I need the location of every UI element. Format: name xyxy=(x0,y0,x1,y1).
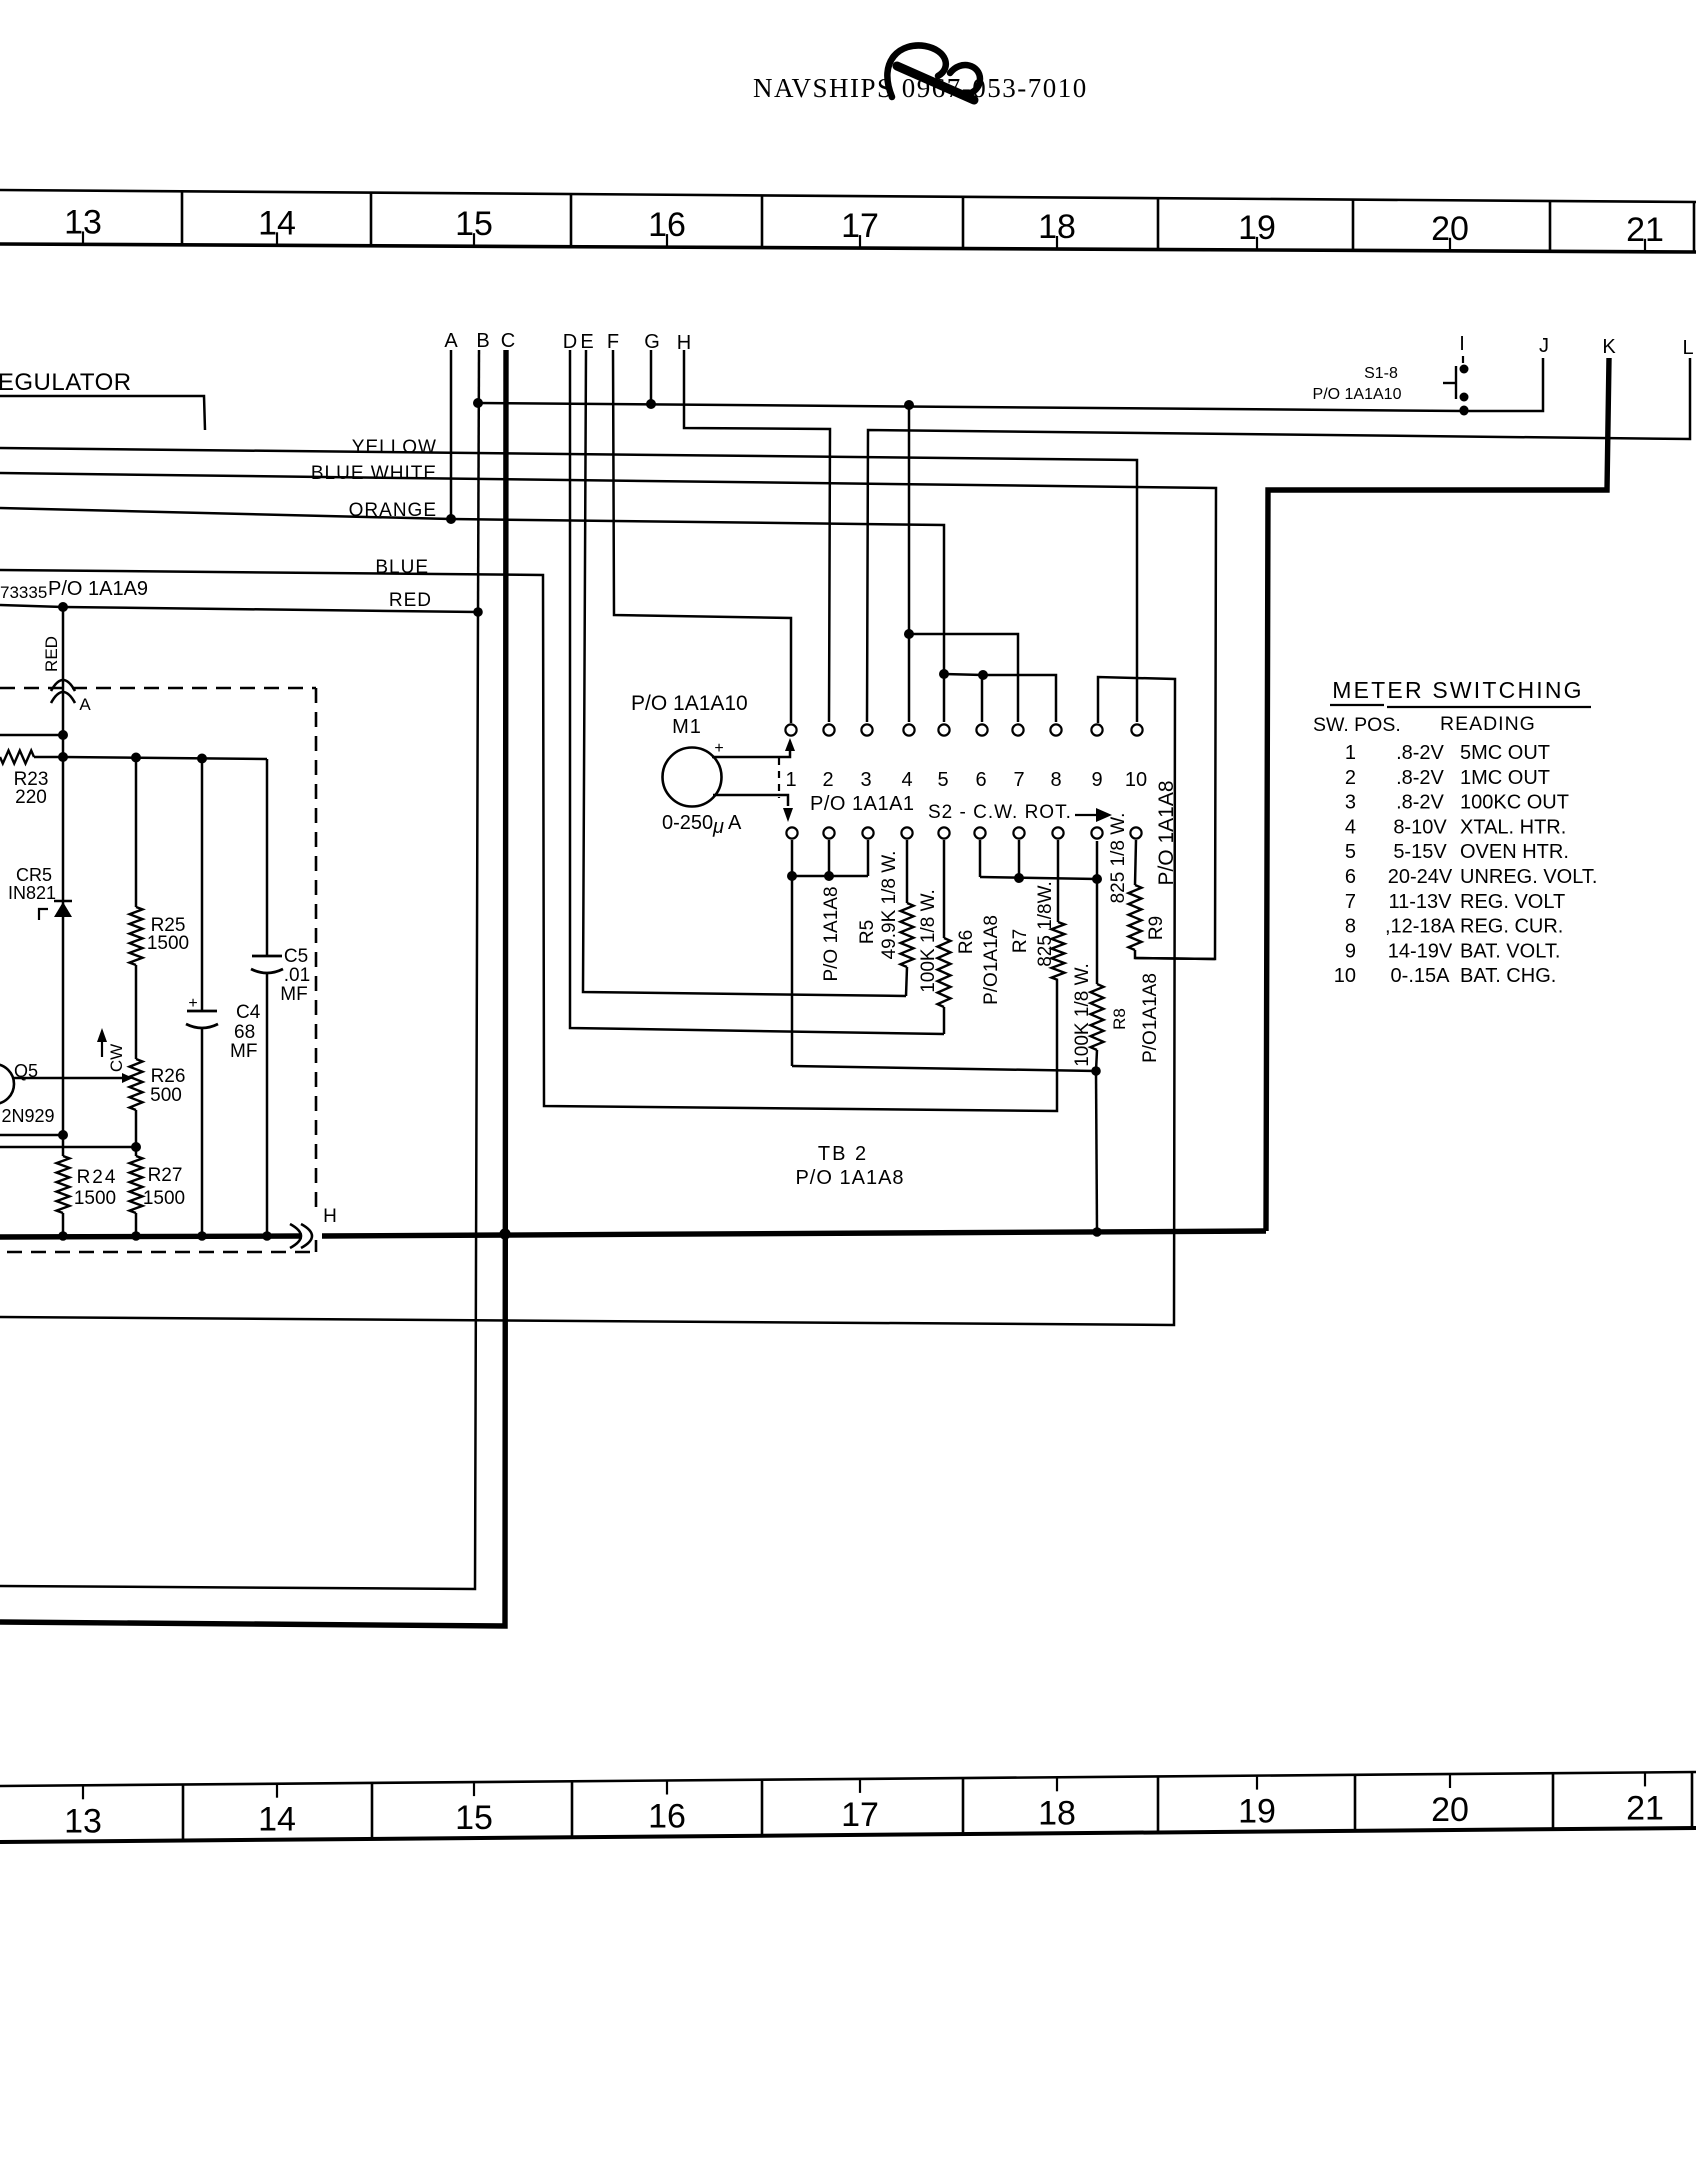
junction G xyxy=(646,399,656,409)
svg-text:1500: 1500 xyxy=(74,1188,116,1209)
resistor R5 xyxy=(901,903,914,967)
svg-text:+: + xyxy=(188,995,197,1012)
junction S1-8 xyxy=(1460,407,1469,416)
svg-text:220: 220 xyxy=(15,787,47,808)
svg-text:MF: MF xyxy=(280,984,307,1005)
wire R26 to R27 xyxy=(135,1110,138,1156)
svg-text:REG. VOLT: REG. VOLT xyxy=(1460,891,1565,913)
wire to S2 contact 6 xyxy=(981,675,984,722)
wire contact 6 lower xyxy=(979,840,982,877)
svg-text:100K 1/8 W.: 100K 1/8 W. xyxy=(918,889,939,993)
svg-text:P/O 1A1A1: P/O 1A1A1 xyxy=(810,793,915,815)
wire stub left xyxy=(0,1134,63,1137)
svg-text:BAT. VOLT.: BAT. VOLT. xyxy=(1460,940,1560,962)
module boundary P/O 1A1A9 (dashed box) xyxy=(0,687,316,690)
svg-text:R8: R8 xyxy=(1110,1008,1129,1030)
S2 upper contact 1 xyxy=(785,724,796,735)
svg-text:17: 17 xyxy=(841,1796,879,1834)
S2 upper contact 5 xyxy=(938,724,949,735)
wire stub to R27 xyxy=(0,1146,136,1149)
svg-text:.01: .01 xyxy=(284,965,310,986)
svg-text:μ: μ xyxy=(712,816,724,838)
svg-text:IN821: IN821 xyxy=(8,883,56,903)
svg-text:RED: RED xyxy=(42,636,61,672)
wire H to S2 contact 2 xyxy=(684,350,830,722)
wire G stub xyxy=(650,350,653,404)
svg-text:4: 4 xyxy=(1345,816,1356,838)
wire S2 contact 9 to left edge xyxy=(0,677,1175,1325)
svg-text:RED: RED xyxy=(389,590,432,611)
svg-text:P/O 1A1A8: P/O 1A1A8 xyxy=(821,886,842,981)
wire F to S2 contact 1 xyxy=(613,350,791,723)
svg-text:1500: 1500 xyxy=(147,933,189,954)
svg-text:2: 2 xyxy=(822,769,833,791)
svg-text:BLUE: BLUE xyxy=(375,557,429,578)
S2 lower contact 8 xyxy=(1052,827,1063,838)
junction to S2 deck xyxy=(904,400,914,410)
svg-text:A: A xyxy=(444,330,458,352)
resistor R8 xyxy=(1091,984,1104,1050)
svg-text:P/O 1A1A8: P/O 1A1A8 xyxy=(795,1167,904,1189)
S2 lower contact 3 xyxy=(862,827,873,838)
S2 lower contact 2 xyxy=(823,827,834,838)
wire CR5 to R24 xyxy=(62,917,65,1156)
S2 upper contact 8 xyxy=(1050,724,1061,735)
svg-text:10: 10 xyxy=(1125,769,1147,791)
S2 upper contact 7 xyxy=(1012,724,1023,735)
svg-text:D: D xyxy=(563,331,577,353)
S2 lower contact 6 xyxy=(974,827,985,838)
svg-text:XTAL. HTR.: XTAL. HTR. xyxy=(1460,816,1566,838)
resistor R23 xyxy=(0,751,34,764)
svg-text:K: K xyxy=(1602,336,1616,358)
svg-text:13: 13 xyxy=(64,1802,102,1840)
svg-text:R5: R5 xyxy=(857,920,878,944)
svg-text:19: 19 xyxy=(1238,1793,1276,1831)
svg-text:B: B xyxy=(476,330,489,352)
svg-text:R6: R6 xyxy=(956,930,977,954)
svg-text:CW: CW xyxy=(107,1044,126,1072)
wire contact 2 lower xyxy=(828,840,831,876)
junction B xyxy=(473,398,483,408)
svg-text:F: F xyxy=(607,331,619,353)
capacitor C4 xyxy=(201,758,204,1011)
svg-text:16: 16 xyxy=(648,1798,686,1836)
wire meter + to wiper xyxy=(712,749,790,757)
svg-text:P/O 1A1A8: P/O 1A1A8 xyxy=(1155,780,1178,885)
svg-text:10: 10 xyxy=(1334,965,1356,987)
svg-text:YELLOW: YELLOW xyxy=(352,437,437,458)
wire contact 3 lower xyxy=(867,840,870,876)
svg-text:1500: 1500 xyxy=(143,1188,185,1209)
svg-text:READING: READING xyxy=(1440,713,1536,735)
svg-text:5: 5 xyxy=(1345,841,1356,863)
svg-text:15: 15 xyxy=(455,1799,493,1837)
svg-text:P/O 1A1A10: P/O 1A1A10 xyxy=(631,692,748,715)
svg-text:REGULATOR: REGULATOR xyxy=(0,369,132,396)
resistor R9 xyxy=(1129,885,1142,950)
wire RED xyxy=(0,605,478,612)
bottom ruler strip xyxy=(0,1772,1696,1786)
svg-text:1MC OUT: 1MC OUT xyxy=(1460,767,1550,789)
svg-text:3: 3 xyxy=(860,769,871,791)
wire contacts 1,2,3 bus xyxy=(791,840,794,1066)
svg-text:5MC OUT: 5MC OUT xyxy=(1460,742,1550,764)
svg-text:14: 14 xyxy=(258,1801,296,1839)
wire R25 to R26 xyxy=(135,965,138,1059)
svg-text:ORANGE: ORANGE xyxy=(349,500,437,521)
wire to S2 contact 4 xyxy=(908,405,911,722)
svg-text:2N929: 2N929 xyxy=(1,1106,54,1126)
wire YELLOW to S2 contact 10 xyxy=(0,448,1137,722)
wire B-G-J xyxy=(478,358,1543,411)
wire ORANGE to S2 contact 5 xyxy=(0,508,944,722)
svg-text:20-24V: 20-24V xyxy=(1388,866,1453,888)
wire bus to R8 bottom xyxy=(792,1066,1096,1071)
wire K (heavy) to ground bus xyxy=(1266,358,1609,1231)
svg-text:500: 500 xyxy=(150,1085,182,1106)
wire top rail xyxy=(63,757,267,759)
wire BLUE WHITE to R9 xyxy=(0,473,1216,959)
svg-text:TB 2: TB 2 xyxy=(818,1143,868,1165)
svg-text:825 1/8W.: 825 1/8W. xyxy=(1035,881,1056,967)
svg-text:2: 2 xyxy=(1345,767,1356,789)
wire B lower to left edge xyxy=(0,612,478,1589)
junction contact 4/7 xyxy=(904,629,914,639)
svg-text:SW. POS.: SW. POS. xyxy=(1313,714,1401,736)
svg-text:METER SWITCHING: METER SWITCHING xyxy=(1332,677,1584,703)
svg-text:0-250: 0-250 xyxy=(662,812,713,834)
svg-text:7: 7 xyxy=(1013,769,1024,791)
svg-text:3: 3 xyxy=(1345,792,1356,814)
svg-text:H: H xyxy=(323,1206,337,1227)
paperclip mark xyxy=(887,45,945,97)
wire A stub xyxy=(450,350,453,519)
wire to R25 xyxy=(135,757,138,907)
potentiometer R26 xyxy=(130,1059,143,1110)
svg-text:R26: R26 xyxy=(151,1066,186,1087)
svg-text:68: 68 xyxy=(234,1022,255,1043)
svg-text:9: 9 xyxy=(1091,769,1102,791)
svg-text:M1: M1 xyxy=(672,716,702,738)
dashed gang link xyxy=(778,758,780,798)
wire meter - to wiper xyxy=(713,795,788,806)
leader line REGULATOR xyxy=(0,396,205,430)
svg-text:6: 6 xyxy=(1345,866,1356,888)
svg-text:14-19V: 14-19V xyxy=(1388,940,1453,962)
svg-text:R7: R7 xyxy=(1010,929,1031,953)
wire E to R5 xyxy=(583,350,906,996)
wire stub to A line xyxy=(0,734,63,737)
svg-text:0-.15A: 0-.15A xyxy=(1391,965,1451,987)
wire C (heavy) to left edge xyxy=(0,350,506,1626)
svg-text:E: E xyxy=(580,331,593,353)
svg-text:,12-18A: ,12-18A xyxy=(1385,916,1456,938)
svg-text:I: I xyxy=(1459,333,1465,355)
svg-text:P/O 1A1A10: P/O 1A1A10 xyxy=(1313,386,1402,403)
svg-text:7: 7 xyxy=(1345,891,1356,913)
svg-text:C5: C5 xyxy=(284,946,308,967)
svg-text:R24: R24 xyxy=(77,1167,118,1188)
CW arrow (R26 rotation) xyxy=(101,1040,103,1057)
svg-text:P/O 1A1A9: P/O 1A1A9 xyxy=(48,578,148,600)
svg-text:20: 20 xyxy=(1431,1791,1469,1829)
svg-text:.8-2V: .8-2V xyxy=(1396,742,1444,764)
heavy bus wire (to K) xyxy=(0,1236,302,1237)
junction R23 line xyxy=(58,752,68,762)
svg-text:100K 1/8 W.: 100K 1/8 W. xyxy=(1072,963,1093,1067)
svg-text:OVEN HTR.: OVEN HTR. xyxy=(1460,841,1569,863)
svg-text:REG. CUR.: REG. CUR. xyxy=(1460,916,1563,938)
wire contact 4 lower to R5 xyxy=(906,840,909,903)
S2 upper contact 9 xyxy=(1091,724,1102,735)
svg-text:100KC OUT: 100KC OUT xyxy=(1460,792,1569,814)
S2 lower contact 9 xyxy=(1091,827,1102,838)
svg-text:S1-8: S1-8 xyxy=(1364,365,1398,382)
svg-text:11-13V: 11-13V xyxy=(1388,891,1452,913)
svg-text:.8-2V: .8-2V xyxy=(1396,767,1444,789)
wire contact 7 lower xyxy=(1018,840,1021,878)
junction A-ORANGE xyxy=(446,514,456,524)
S2 lower contact 10 xyxy=(1130,827,1141,838)
junction C-ground bus xyxy=(499,1228,510,1239)
svg-text:5-15V: 5-15V xyxy=(1393,841,1447,863)
svg-text:BLUE WHITE: BLUE WHITE xyxy=(311,463,437,484)
resistor R27 xyxy=(130,1156,143,1213)
svg-text:8: 8 xyxy=(1050,769,1061,791)
S2 lower contact 1 xyxy=(786,827,797,838)
wire BLUE to R7 xyxy=(0,570,1057,1111)
svg-text:P/O1A1A8: P/O1A1A8 xyxy=(1140,973,1161,1063)
svg-text:1: 1 xyxy=(785,769,796,791)
svg-text:5: 5 xyxy=(937,769,948,791)
wire contact 9 lower xyxy=(1096,841,1099,879)
S2 upper contact 4 xyxy=(903,724,914,735)
wire L to S2 contact 3 xyxy=(867,358,1690,722)
wire contact 8 lower to R7 xyxy=(1057,840,1060,922)
svg-text:+: + xyxy=(714,740,723,757)
wire contact 5 lower to R6 xyxy=(943,840,946,938)
svg-text:1: 1 xyxy=(1345,742,1356,764)
S2 upper contact 3 xyxy=(861,724,872,735)
svg-text:BAT. CHG.: BAT. CHG. xyxy=(1460,965,1556,987)
svg-text:C4: C4 xyxy=(236,1002,261,1023)
svg-text:R9: R9 xyxy=(1146,916,1167,940)
svg-text:A: A xyxy=(79,695,91,714)
svg-text:.8-2V: .8-2V xyxy=(1396,792,1444,814)
S2 lower contact 7 xyxy=(1013,827,1024,838)
top ruler strip xyxy=(0,190,1696,202)
wire to S2 contact 7 xyxy=(909,634,1018,722)
svg-text:8-10V: 8-10V xyxy=(1393,816,1447,838)
svg-text:A: A xyxy=(728,812,742,834)
wire red lead xyxy=(62,607,65,900)
resistor R24 xyxy=(57,1156,70,1213)
svg-text:CR5: CR5 xyxy=(16,865,52,885)
wire to R8 xyxy=(1096,879,1099,984)
wire branch to S2 contacts 6,8 xyxy=(944,674,1056,722)
transistor Q5 xyxy=(0,1064,14,1104)
switch S1-8 xyxy=(1462,356,1464,363)
svg-text:C: C xyxy=(501,330,515,352)
svg-text:21: 21 xyxy=(1626,1789,1664,1827)
wire D to R6 xyxy=(570,350,944,1034)
S2 lower contact 4 xyxy=(901,827,912,838)
connector A chevron xyxy=(51,692,75,703)
svg-text:R27: R27 xyxy=(148,1165,183,1186)
svg-text:J: J xyxy=(1539,335,1549,357)
wire bus 6-7-9 xyxy=(980,877,1097,879)
svg-text:UNREG. VOLT.: UNREG. VOLT. xyxy=(1460,866,1597,888)
capacitor C5 xyxy=(266,759,269,956)
svg-text:49.9K 1/8 W.: 49.9K 1/8 W. xyxy=(879,851,900,960)
wire B vertical upper xyxy=(478,350,479,612)
wire R8 bottom to heavy bus xyxy=(1096,1071,1097,1232)
S2 lower contact 5 xyxy=(938,827,949,838)
svg-text:6: 6 xyxy=(975,769,986,791)
connector H chevron xyxy=(301,1224,312,1248)
S2 upper contact 10 xyxy=(1131,724,1142,735)
svg-text:18: 18 xyxy=(1038,1794,1076,1832)
wire Q5 to R26 wiper xyxy=(13,1077,122,1080)
meter M1 xyxy=(663,748,722,807)
svg-text:S2 - C.W. ROT.: S2 - C.W. ROT. xyxy=(928,802,1072,823)
svg-text:G: G xyxy=(644,331,660,353)
resistor R6 xyxy=(938,938,951,1007)
arrow CW rotation xyxy=(1075,814,1096,816)
svg-text:825 1/8 W.: 825 1/8 W. xyxy=(1108,813,1129,904)
svg-text:L: L xyxy=(1682,337,1693,359)
svg-text:8: 8 xyxy=(1345,916,1356,938)
wire contact 10 lower to R9 xyxy=(1135,840,1136,885)
diode CR5 xyxy=(62,900,65,917)
S2 upper contact 2 xyxy=(823,724,834,735)
S2 upper contact 6 xyxy=(976,724,987,735)
svg-text:4: 4 xyxy=(901,769,912,791)
svg-text:P/O1A1A8: P/O1A1A8 xyxy=(981,915,1002,1005)
resistor R25 xyxy=(130,907,143,965)
resistor R7 xyxy=(1052,922,1065,980)
svg-text:MF: MF xyxy=(230,1041,257,1062)
svg-text:73335: 73335 xyxy=(0,583,47,602)
svg-text:9: 9 xyxy=(1345,940,1356,962)
